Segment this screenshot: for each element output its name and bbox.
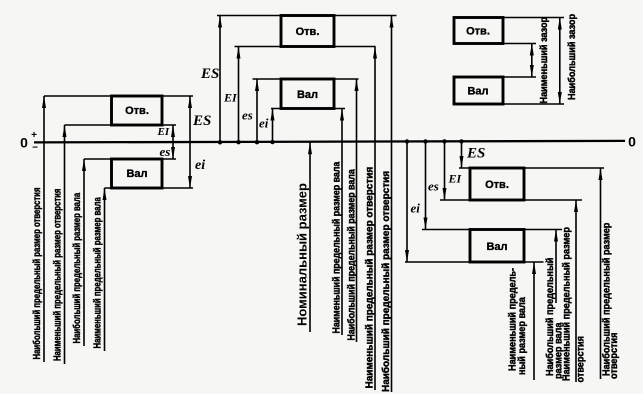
box shaft left: [112, 159, 163, 188]
wire ext bottom shaft: [271, 108, 345, 110]
junction dots rb: [405, 139, 409, 143]
arrowheads left group: [42, 96, 46, 108]
svg-text:Отв.: Отв.: [485, 179, 509, 191]
svg-text:Наибольший предельный размер о: Наибольший предельный размер отверстия: [31, 188, 42, 360]
svg-text:Наибольший предельный размер в: Наибольший предельный размер вала: [346, 169, 358, 341]
MIDDLE GROUP: [200, 16, 397, 393]
dimension ei: [272, 109, 274, 143]
dimension min clearance: [531, 44, 533, 78]
arrowheads: [218, 16, 222, 28]
svg-text:es: es: [242, 108, 253, 123]
svg-text:Наибольший предельный размер в: Наибольший предельный размер вала: [71, 192, 82, 343]
dimension line EI/es: [172, 125, 174, 159]
svg-text:es: es: [160, 144, 171, 159]
svg-text:ES: ES: [466, 146, 485, 162]
wire ext top shaft rb: [422, 229, 562, 231]
wire ext top hole: [44, 95, 193, 97]
dimension ES: [219, 16, 221, 143]
node 0 left: [20, 130, 38, 154]
box hole middle: [281, 16, 334, 47]
svg-text:0: 0: [628, 134, 636, 150]
wire ext bottom shaft tr: [503, 103, 564, 105]
svg-text:es: es: [428, 179, 439, 194]
wire label line 4: [104, 188, 106, 351]
svg-text:Вал: Вал: [486, 241, 507, 253]
junction dots: [218, 140, 222, 144]
svg-text:Наименьший предельный размер: Наименьший предельный размер: [561, 227, 573, 381]
wire label line M3: [374, 47, 376, 391]
dimension line ES/ei: [189, 96, 191, 188]
box shaft rb: [470, 230, 524, 263]
dimension max clearance: [559, 18, 561, 105]
svg-text:Наименьший предельный размер в: Наименьший предельный размер вала: [91, 197, 102, 349]
box shaft middle: [281, 79, 334, 109]
box hole rb: [470, 168, 524, 200]
svg-text:Наименьший предельный размер о: Наименьший предельный размер отверстия: [51, 189, 62, 361]
nominal size line: [309, 142, 311, 332]
RIGHT BOTTOM GROUP: [405, 139, 620, 382]
wire label line 1: [43, 96, 45, 362]
svg-text:Отв.: Отв.: [125, 105, 149, 117]
svg-text:Вал: Вал: [126, 168, 147, 180]
wire ext bottom hole: [235, 46, 376, 48]
wire ext bottom hole rb: [440, 199, 582, 201]
box hole left: [112, 96, 163, 125]
svg-text:отверстия: отверстия: [575, 336, 587, 383]
dimension es rb: [425, 142, 427, 230]
svg-text:ный размер вала: ный размер вала: [516, 297, 528, 375]
svg-text:ei: ei: [411, 201, 421, 216]
svg-text:ES: ES: [192, 113, 211, 129]
wire ext bottom shaft rb: [405, 261, 544, 263]
svg-text:+: +: [31, 130, 37, 141]
svg-text:отверстия: отверстия: [608, 332, 620, 379]
arrowheads rb: [405, 250, 409, 262]
wire label line M4: [391, 16, 393, 393]
svg-text:ei: ei: [195, 158, 205, 173]
wire label line R3: [575, 200, 577, 382]
svg-text:ei: ei: [259, 116, 269, 131]
svg-text:Наибольший зазор: Наибольший зазор: [566, 14, 578, 100]
wire label line R2: [555, 230, 557, 304]
box hole top-right: [454, 18, 503, 44]
box shaft top-right: [454, 77, 503, 104]
wire ext top shaft: [253, 78, 359, 80]
svg-text:0: 0: [20, 135, 28, 151]
svg-text:−: −: [32, 143, 38, 154]
wire label line R4: [600, 168, 602, 379]
svg-text:Наименьший зазор: Наименьший зазор: [538, 17, 550, 104]
svg-text:ES: ES: [200, 66, 219, 82]
wire ext top shaft: [84, 158, 176, 160]
svg-text:Вал: Вал: [467, 86, 488, 98]
wire ext top hole: [217, 15, 397, 17]
wire label line M1: [341, 109, 343, 336]
wire ext top shaft tr: [503, 76, 536, 78]
dimension ES rb: [461, 141, 463, 168]
svg-text:Наименьший предельный размер о: Наименьший предельный размер отверстия: [364, 167, 375, 389]
LEFT GROUP: [31, 96, 211, 364]
TOP RIGHT GROUP: [454, 14, 578, 104]
wire label line M2: [356, 79, 358, 342]
dimension EI rb: [444, 141, 446, 200]
wire ext bottom shaft: [105, 187, 194, 189]
svg-text:Отв.: Отв.: [466, 26, 490, 38]
svg-text:EI: EI: [448, 172, 463, 186]
svg-text:Наименьший предельный размер в: Наименьший предельный размер вала: [331, 161, 343, 333]
zero line: [34, 141, 625, 143]
wire label line R1: [533, 262, 535, 380]
wire ext top hole rb: [459, 167, 604, 169]
svg-text:Отв.: Отв.: [296, 26, 320, 38]
dimension EI: [238, 47, 240, 143]
svg-text:EI: EI: [223, 91, 238, 105]
svg-text:Наибольший предельный размер о: Наибольший предельный размер отверстия: [380, 171, 392, 392]
dimension es: [256, 79, 258, 142]
wire ext bottom hole tr: [503, 43, 536, 45]
dimension ei rb: [406, 142, 408, 263]
wire ext top hole tr: [503, 17, 564, 19]
wire label line 3: [83, 159, 85, 346]
svg-text:Номинальный размер: Номинальный размер: [295, 183, 310, 326]
svg-text:EI: EI: [157, 126, 170, 138]
wire label line 2: [64, 125, 66, 364]
wire ext bottom hole: [65, 124, 177, 126]
svg-text:Вал: Вал: [297, 89, 318, 101]
